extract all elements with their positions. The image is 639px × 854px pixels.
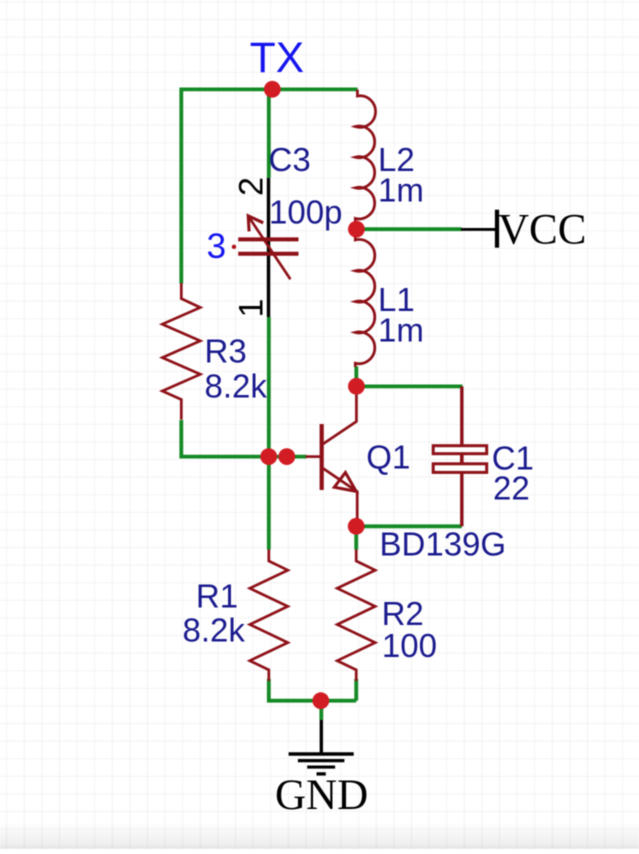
wire: base node down to R1 top [267, 457, 271, 550]
svg-text:3: 3 [207, 227, 226, 266]
wire: bottom rail node to GND stub [319, 701, 323, 720]
capacitor C3 pin 2 line [267, 178, 270, 238]
wire: R1 bottom to bottom rail [269, 679, 356, 701]
value 1m (L2) [378, 171, 424, 208]
pin number 1 (C3) [233, 299, 271, 318]
pin 3 label (blue) [207, 227, 226, 266]
wire: VCC tap from L1/L2 node [357, 227, 462, 231]
capacitor C1 middle stub [460, 452, 464, 465]
svg-text:22: 22 [493, 470, 530, 507]
svg-text:R3: R3 [205, 333, 247, 370]
label L1 [378, 281, 415, 318]
wire: left vertical R3 bottom down and right to base node [181, 420, 288, 457]
svg-text:TX: TX [250, 35, 304, 82]
svg-text:1m: 1m [378, 311, 424, 348]
net label TX [250, 35, 304, 82]
resistor R2 [337, 550, 375, 682]
svg-text:8.2k: 8.2k [205, 368, 268, 405]
power label VCC [498, 206, 586, 253]
capacitor C1 top pin [460, 386, 463, 445]
power symbol VCC lead [461, 228, 496, 231]
ground symbol bar 2 [298, 759, 345, 762]
capacitor C3 pin 1 line [267, 240, 270, 317]
junction node bottom rail [312, 692, 329, 709]
transistor Q1 emitter [322, 468, 357, 527]
svg-text:Q1: Q1 [366, 438, 410, 475]
ground symbol bar 4 [317, 772, 326, 775]
ground symbol bar 1 [289, 752, 354, 756]
value 100 (R2) [382, 627, 437, 664]
label L2 [378, 141, 415, 178]
wire: left vertical from TX rail to R3 top [179, 88, 183, 284]
wire: center vertical C3 pin 1 down to base node [267, 317, 271, 457]
capacitor C3 plate top [238, 237, 298, 241]
capacitor C3 trimmer arrow shaft [249, 217, 291, 280]
wire: R2 bottom stub to bottom rail [354, 679, 358, 701]
junction node base left [260, 448, 277, 465]
svg-text:1: 1 [233, 299, 271, 318]
ground symbol bar 3 [307, 766, 335, 769]
svg-text:GND: GND [275, 772, 368, 819]
capacitor C1 plate bottom [433, 464, 487, 473]
label Q1 [366, 438, 410, 475]
svg-text:R1: R1 [196, 577, 238, 614]
capacitor C3 plate bottom [238, 252, 298, 256]
junction node VCC tap [348, 221, 365, 238]
value BD139G (Q1) [380, 526, 507, 563]
capacitor C1 plate top [433, 446, 487, 454]
wire: base node to Q1 base [287, 455, 307, 459]
junction node collector [348, 378, 365, 395]
transistor Q1 base bar [320, 424, 324, 490]
capacitor C1 bottom pin [460, 472, 463, 526]
label R1 [196, 577, 238, 614]
label R2 [382, 595, 424, 632]
svg-text:C3: C3 [269, 141, 311, 178]
svg-text:BD139G: BD139G [380, 526, 507, 563]
ground label GND [275, 772, 368, 819]
inductor L1 [355, 236, 374, 367]
wire: L1 bottom to collector node [354, 367, 358, 387]
ground symbol pin [320, 720, 323, 753]
value 100p (C3) [269, 194, 342, 231]
resistor R1 [250, 550, 288, 682]
label R3 [205, 333, 247, 370]
pin number 2 (C3) [233, 177, 271, 196]
label C3 [269, 141, 311, 178]
wire: top horizontal TX rail [180, 88, 358, 92]
svg-text:1m: 1m [378, 171, 424, 208]
transistor Q1 collector [322, 386, 356, 445]
svg-text:2: 2 [233, 177, 271, 196]
transistor Q1 emitter arrow [334, 473, 356, 492]
value 22 (C1) [493, 470, 530, 507]
svg-text:100: 100 [382, 627, 437, 664]
power symbol VCC bar [495, 210, 499, 248]
value 1m (L1) [378, 311, 424, 348]
inductor L2 [355, 90, 375, 223]
junction node base right [278, 448, 295, 465]
wire: emitter node to C1 bottom [356, 524, 462, 528]
resistor R3 [162, 283, 200, 420]
label C1 [492, 439, 534, 476]
junction node TX [264, 81, 281, 98]
wire: emitter node down to R2 top [354, 526, 358, 549]
bottom edge fade [0, 822, 639, 849]
svg-text:VCC: VCC [498, 206, 586, 253]
capacitor C3 trimmer arrowhead [248, 216, 263, 232]
junction node emitter [348, 518, 365, 535]
wire: center vertical TX to C3 pin 2 [267, 89, 271, 177]
svg-text:100p: 100p [269, 194, 342, 231]
transistor Q1 base lead [306, 455, 321, 458]
pin 3 origin dot [232, 245, 236, 249]
value 8.2k (R3) [205, 368, 268, 405]
svg-text:8.2k: 8.2k [183, 611, 246, 648]
wire: collector node to C1 top [356, 384, 463, 388]
value 8.2k (R1) [183, 611, 246, 648]
